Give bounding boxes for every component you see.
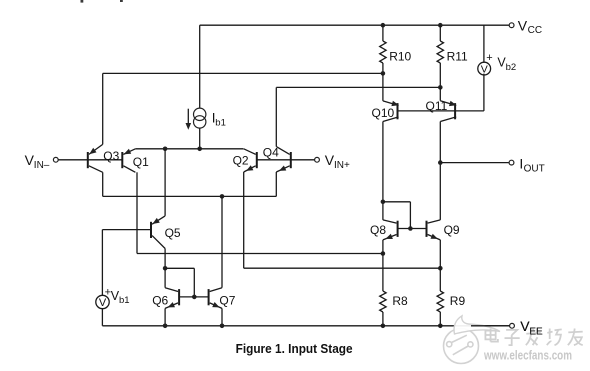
junction dot R8 bottom: [381, 324, 386, 329]
wire Q3 collector vertical: [102, 172, 104, 196]
svg-text:CC: CC: [528, 25, 542, 36]
svg-text:Q10: Q10: [372, 106, 395, 120]
wire Q7 collector vertical: [221, 196, 223, 287]
svg-text:Q4: Q4: [263, 145, 279, 159]
resistor R9: [437, 291, 443, 312]
svg-text:Q7: Q7: [219, 293, 235, 307]
svg-text:R11: R11: [447, 49, 468, 63]
svg-text:R8: R8: [392, 294, 408, 308]
wire VEE rail overdraw: [471, 325, 509, 327]
wire Q6 emitter vertical: [164, 308, 166, 325]
wire Q10 collector vertical: [382, 122, 384, 220]
svg-text:Q1: Q1: [133, 155, 149, 169]
wire Q6 diode bridge: [165, 267, 194, 269]
wire VIN+ base line: [257, 159, 315, 161]
transistor Q5: [150, 222, 152, 238]
resistor R11: [437, 41, 443, 63]
wire R11 bottom lead: [439, 63, 441, 87]
svg-text:R10: R10: [389, 49, 411, 63]
current source Ib1: [194, 108, 206, 120]
resistor R8: [380, 291, 386, 312]
watermark logo comma: [454, 316, 500, 334]
wire Q1 collector vertical: [136, 172, 138, 253]
svg-text:Q5: Q5: [165, 226, 181, 240]
wire Q3 emitter rail to R10 bottom: [103, 72, 383, 74]
output terminal IOUT: [509, 160, 514, 165]
svg-text:b1: b1: [119, 295, 130, 306]
wire Ib1 vertical from VCC rail: [199, 25, 201, 108]
svg-text:b1: b1: [215, 118, 226, 129]
junction dot Q8 collector-base: [381, 200, 386, 205]
wire Q5 collector vertical: [164, 249, 166, 269]
input terminal VIN+: [315, 157, 320, 162]
wire Q5 base line: [102, 229, 151, 231]
junction dot Q6 Q7 base: [192, 295, 197, 300]
junction dot Q7 collector tap: [220, 194, 225, 199]
transistor Q10: [397, 103, 399, 119]
input terminal VIN-: [53, 157, 58, 162]
wire Q6 collector vertical: [164, 268, 166, 287]
wire R10 top lead: [382, 25, 384, 41]
wire Q11 collector vertical: [439, 122, 441, 220]
junction dot Q6 emitter: [163, 324, 168, 329]
junction dot Q5 collector: [163, 266, 168, 271]
wire Q5 emitter vertical: [164, 149, 166, 216]
junction dot Q7 emitter: [220, 324, 225, 329]
wire Q4 collector vertical: [275, 87, 277, 146]
wire R8 bottom lead: [382, 312, 384, 326]
wire IOUT lead: [440, 162, 509, 164]
wire Vb1 bottom lead: [101, 309, 103, 326]
wire Vb2 bottom lead to Q10 Q11 base: [483, 74, 485, 111]
wire Q3-Q4 mid bus: [103, 195, 277, 197]
wire Q9 emitter vertical: [439, 240, 441, 291]
watermark text dianzifashaoyou: [485, 329, 497, 342]
power terminal VEE: [510, 323, 515, 328]
watermark logo circle: [444, 329, 479, 364]
transistor Q1: [121, 152, 123, 168]
svg-text:EE: EE: [529, 326, 543, 337]
voltage source Vb2: [478, 62, 491, 75]
wire Q4 collector rail to R11 bottom: [276, 86, 440, 88]
junction dot R10 top: [381, 23, 386, 28]
wire Q8 Q9 base line: [398, 228, 427, 230]
wire Q7 emitter vertical: [221, 308, 223, 325]
wire R9 bottom lead: [439, 312, 441, 326]
wire R10 bottom lead: [382, 63, 384, 73]
transistor Q4: [290, 152, 292, 168]
junction dot Q8 emitter bus1: [381, 251, 386, 256]
junction dot Q8 Q9 base: [408, 226, 413, 231]
svg-text:IN+: IN+: [334, 160, 350, 171]
svg-text:Q11: Q11: [426, 99, 448, 113]
svg-text:Q2: Q2: [233, 153, 249, 167]
transistor Q2: [256, 152, 258, 168]
transistor Q11: [454, 103, 456, 119]
transistor Q7: [208, 289, 210, 305]
voltage source Vb1: [96, 295, 109, 308]
svg-text:Q9: Q9: [444, 223, 460, 237]
svg-text:V: V: [99, 297, 107, 309]
svg-text:Q6: Q6: [152, 293, 168, 307]
wire VCC top rail: [200, 24, 510, 26]
wire Q10 Q11 base line: [398, 110, 456, 112]
junction dot R11 top: [438, 23, 443, 28]
wire Q4 emitter vertical: [275, 172, 277, 196]
svg-text:Q3: Q3: [103, 149, 119, 163]
wire tail rail: [135, 148, 243, 150]
wire Q3 emitter vertical: [102, 73, 104, 144]
svg-text:R9: R9: [450, 294, 466, 308]
svg-text:Figure 1. Input Stage: Figure 1. Input Stage: [236, 342, 353, 356]
wire Q6 Q7 base line: [179, 296, 209, 298]
junction dot Ib1 tail: [197, 147, 202, 152]
wire R11 top lead: [439, 25, 441, 41]
stray cropped text top: [81, 0, 84, 3]
junction dot R10 bottom: [381, 71, 386, 76]
junction dot Q5 emitter tap: [163, 147, 168, 152]
wire Q8 emitter vertical: [382, 240, 384, 291]
wire bus Q1 collector to Q8 emitter: [137, 253, 383, 255]
svg-text:www.elecfans.com: www.elecfans.com: [483, 349, 572, 363]
svg-text:V: V: [518, 17, 528, 33]
svg-text:IN–: IN–: [34, 160, 50, 171]
junction dot Q9 emitter bus2: [438, 266, 443, 271]
power terminal VCC: [509, 23, 514, 28]
wire Q11 emitter vertical: [439, 87, 441, 100]
junction dot R9 bottom: [438, 324, 443, 329]
wire bus Q2 emitter to Q9 emitter: [244, 267, 441, 269]
junction dot R11 bottom: [438, 85, 443, 90]
wire Vb1 top lead: [101, 230, 103, 296]
wire VIN- base line: [58, 159, 122, 161]
svg-text:+: +: [486, 52, 492, 64]
wire Q2 emitter vertical: [243, 172, 245, 268]
svg-text:OUT: OUT: [524, 163, 545, 174]
svg-text:Q8: Q8: [370, 223, 386, 237]
wire Q8 diode bridge: [409, 202, 411, 229]
transistor Q9: [426, 221, 428, 237]
svg-text:b2: b2: [506, 62, 517, 73]
transistor Q6: [178, 289, 180, 305]
junction dot IOUT tap: [438, 160, 443, 165]
wire VEE bottom rail: [102, 325, 509, 327]
resistor R10: [380, 41, 386, 63]
wire Q10 emitter vertical: [382, 73, 384, 101]
transistor Q3: [87, 152, 89, 168]
wire Vb2 top lead: [483, 25, 485, 63]
transistor Q8: [397, 221, 399, 237]
